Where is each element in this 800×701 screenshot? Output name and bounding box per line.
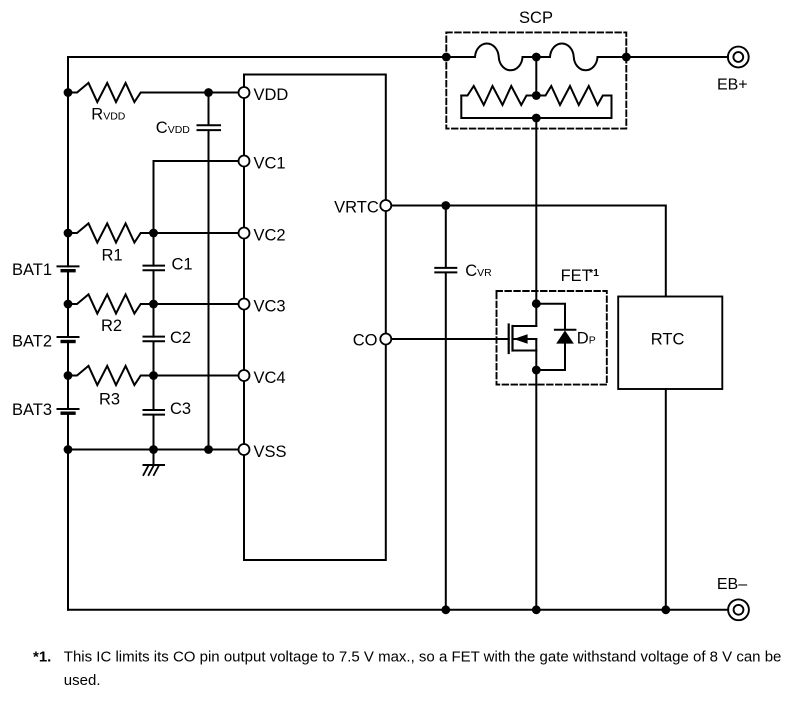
svg-text:SCP: SCP	[519, 9, 553, 27]
svg-text:RVDD: RVDD	[91, 106, 126, 124]
svg-text:EB+: EB+	[717, 76, 748, 93]
transistor Q1 (P-ch MOSFET)	[508, 325, 510, 354]
resistor R3	[68, 366, 239, 385]
fuse F2 (SCP right element)	[536, 43, 626, 70]
resistor RVDD	[68, 83, 239, 102]
wire RTC to EB- rail	[665, 389, 667, 610]
SCP module box	[446, 32, 626, 128]
wire left battery rail	[67, 57, 69, 610]
capacitor C2	[144, 337, 165, 410]
capacitor CVR	[435, 206, 456, 610]
svg-text:VC3: VC3	[254, 297, 286, 315]
svg-text:R1: R1	[102, 247, 123, 265]
svg-text:VDD: VDD	[254, 86, 289, 104]
capacitor C1	[144, 266, 165, 337]
svg-text:BAT2: BAT2	[12, 332, 52, 350]
svg-text:*1.: *1.	[33, 649, 51, 666]
wire VSS row	[68, 449, 239, 451]
ground	[144, 450, 165, 466]
wire VC1	[154, 161, 239, 266]
wire bottom rail (EB- net)	[68, 609, 728, 611]
wire top rail (VDD node to SCP input)	[68, 56, 446, 58]
svg-text:VSS: VSS	[254, 443, 287, 461]
svg-text:used.: used.	[64, 672, 101, 689]
terminal EB+	[728, 47, 749, 68]
svg-text:BAT3: BAT3	[12, 401, 52, 419]
resistor R1	[68, 223, 239, 242]
wire CO net (gate drive)	[391, 338, 509, 340]
svg-text:*1: *1	[589, 267, 599, 279]
svg-text:VRTC: VRTC	[334, 199, 379, 217]
FET module box	[497, 291, 607, 385]
diode DP	[536, 304, 575, 370]
svg-text:C3: C3	[170, 400, 191, 418]
resistor R2	[68, 294, 239, 313]
svg-text:BAT1: BAT1	[12, 261, 52, 279]
wire SCP heater to FET drain column	[535, 118, 537, 304]
svg-text:CO: CO	[353, 332, 378, 350]
svg-text:VC1: VC1	[254, 154, 286, 172]
svg-text:FET: FET	[561, 267, 592, 285]
svg-text:CVR: CVR	[465, 262, 492, 280]
svg-text:RTC: RTC	[651, 330, 685, 348]
svg-text:This IC limits its CO pin outp: This IC limits its CO pin output voltage…	[64, 649, 782, 666]
wire SCP output to EB+	[626, 56, 728, 58]
battery BAT2	[58, 336, 79, 338]
svg-text:C1: C1	[172, 256, 193, 274]
svg-text:R2: R2	[101, 317, 122, 335]
svg-text:VC2: VC2	[254, 226, 286, 244]
svg-text:R3: R3	[99, 391, 120, 409]
fuse F1 (SCP left element)	[446, 43, 536, 70]
wire FET source to EB- rail	[535, 370, 537, 610]
battery BAT1	[58, 265, 79, 267]
RTC block	[618, 297, 722, 390]
IC U1 body	[244, 75, 386, 561]
wire SCP fuse tap to heater	[535, 57, 537, 96]
svg-text:DP: DP	[577, 330, 596, 348]
IC pin terminals	[239, 87, 392, 455]
battery BAT3	[58, 408, 79, 410]
svg-text:C2: C2	[170, 329, 191, 347]
svg-text:EB–: EB–	[717, 576, 747, 593]
capacitor C3	[144, 410, 165, 450]
svg-text:VC4: VC4	[254, 369, 286, 387]
terminal EB-	[728, 599, 749, 620]
capacitor CVDD	[198, 93, 221, 450]
wire VRTC net	[391, 206, 666, 297]
svg-text:CVDD: CVDD	[156, 119, 191, 137]
footnote *1	[33, 649, 781, 690]
resistor SCP heater	[461, 86, 536, 105]
